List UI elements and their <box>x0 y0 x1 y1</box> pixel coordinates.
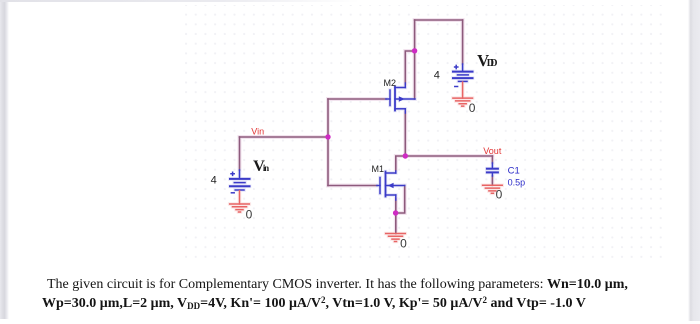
svg-text:0: 0 <box>469 101 476 115</box>
svg-text:0: 0 <box>496 187 503 201</box>
svg-text:4: 4 <box>434 69 440 81</box>
svg-text:Vout: Vout <box>483 146 502 156</box>
svg-text:in: in <box>263 163 269 173</box>
svg-text:0: 0 <box>246 208 253 222</box>
svg-text:Vin: Vin <box>251 126 264 136</box>
svg-text:M1: M1 <box>372 164 385 174</box>
svg-text:0: 0 <box>400 237 407 251</box>
svg-text:0.5p: 0.5p <box>508 178 526 188</box>
svg-text:DD: DD <box>487 58 498 69</box>
svg-text:C1: C1 <box>508 165 520 176</box>
svg-text:M2: M2 <box>384 78 397 88</box>
svg-text:4: 4 <box>211 175 217 187</box>
